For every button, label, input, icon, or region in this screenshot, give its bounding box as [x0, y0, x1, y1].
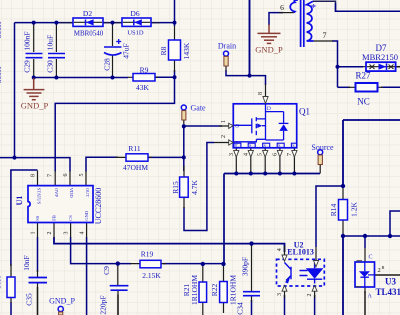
svg-text:3: 3 [64, 232, 70, 235]
svg-text:S: S [264, 143, 266, 148]
wire C35 bottom [37, 287, 39, 315]
pin C28 leads [112, 24, 114, 77]
svg-text:7: 7 [323, 31, 327, 40]
pin source port stub [319, 165, 321, 174]
svg-text:S: S [292, 143, 294, 148]
svg-text:GND_P: GND_P [49, 297, 75, 306]
svg-text:S: S [249, 143, 251, 148]
pin R11 leads [115, 156, 152, 158]
pin C9 leads [117, 265, 119, 315]
svg-text:10nF: 10nF [22, 255, 31, 270]
capacitor C34 [243, 292, 260, 296]
svg-text:7: 7 [48, 174, 54, 177]
svg-text:D6: D6 [130, 9, 139, 18]
svg-text:GND_P: GND_P [21, 101, 49, 111]
svg-text:7: 7 [287, 153, 293, 156]
wire C34 bottom [251, 300, 253, 315]
svg-text:VDD: VDD [69, 188, 74, 199]
svg-text:C35: C35 [25, 293, 34, 306]
svg-text:MBR0540: MBR0540 [74, 29, 104, 37]
pin numbers 3 4 5 6 7 Q1 bottom [229, 153, 293, 156]
pin C34 leads [251, 245, 253, 303]
svg-text:*: * [311, 2, 317, 14]
pin C35 leads [37, 270, 39, 315]
pin C30 leads [55, 24, 57, 77]
svg-text:4: 4 [80, 232, 86, 235]
pin arrows Q1 [229, 97, 297, 158]
svg-text:4: 4 [243, 153, 249, 156]
svg-text:2: 2 [47, 232, 53, 235]
capacitor C9 [110, 286, 129, 291]
svg-text:47uF: 47uF [122, 43, 131, 58]
IC U3 TL431 body [355, 261, 375, 287]
wire secondary bottom [332, 41, 338, 87]
wire source rail drop [223, 174, 225, 265]
svg-text:NC: NC [357, 97, 370, 107]
svg-text:US1D: US1D [127, 29, 144, 36]
pin Q1 left pins [214, 126, 229, 143]
wire D2-D6 link [103, 22, 122, 24]
resistor R15 [180, 177, 189, 197]
svg-text:1.2K: 1.2K [350, 202, 359, 217]
optocoupler U2 EL1013 body [277, 259, 325, 286]
svg-text:OVP: OVP [54, 188, 59, 198]
svg-text:R: R [382, 265, 385, 270]
wire 10K resistor bottom [10, 302, 12, 315]
resistor R21 [199, 282, 207, 302]
wire drain net vertical [249, 0, 251, 76]
pin D2 leads [60, 22, 160, 24]
ground GND_P right [258, 25, 281, 44]
svg-text:C: C [369, 255, 373, 261]
svg-text:800K: 800K [0, 21, 3, 38]
wire R19 right to R21 R22 [163, 263, 224, 265]
svg-text:U1: U1 [15, 196, 24, 206]
svg-text:6: 6 [280, 3, 284, 12]
wire GND pin4 down [86, 237, 88, 315]
wire VDD vertical drop [14, 23, 16, 158]
svg-text:800K: 800K [0, 66, 3, 83]
svg-text:CS: CS [68, 215, 73, 221]
capacitor C35 [29, 278, 48, 283]
pin pad names S Q1 bottom [235, 143, 295, 148]
pin R22 leads [223, 265, 225, 313]
svg-text:MBR2150: MBR2150 [362, 52, 398, 62]
svg-text:R27: R27 [355, 71, 371, 81]
svg-text:1: 1 [31, 232, 37, 235]
svg-text:8: 8 [258, 92, 264, 95]
svg-text:47OHM: 47OHM [123, 163, 148, 172]
pin D7 lead [363, 66, 400, 68]
wire FB net pin2 to U2 pin4 [54, 237, 285, 252]
svg-text:C28: C28 [103, 58, 112, 71]
svg-text:100nF: 100nF [23, 31, 32, 50]
svg-text:Drain: Drain [218, 42, 236, 51]
node source net junctions [341, 184, 345, 188]
svg-text:390pF: 390pF [241, 257, 250, 276]
wire STATUS pin8 loop [11, 170, 38, 266]
wire x343 bottom run [342, 236, 344, 315]
wire R27 right [381, 86, 400, 88]
wire source junction to U2 LED [316, 186, 343, 247]
wire U2 pin2 down [314, 295, 316, 315]
resistor 10K bottom left [7, 277, 15, 298]
pin R19 leads [130, 263, 166, 265]
port GND_P bottom [58, 306, 63, 315]
svg-text:R15: R15 [171, 181, 180, 194]
node Q1 source pin junctions [234, 172, 238, 176]
svg-text:Source: Source [311, 143, 334, 152]
wire cap bottom rail to R9 [34, 77, 128, 79]
wire xfmr pin6 to gnd [269, 13, 283, 25]
svg-text:UCC28600: UCC28600 [94, 188, 103, 224]
node CS net junctions [116, 261, 120, 265]
pin drain port stub [225, 66, 227, 71]
capacitor C30 [48, 54, 65, 58]
svg-text:143K: 143K [182, 42, 191, 59]
pin gate port stub [183, 120, 185, 126]
pin R8 leads [174, 26, 176, 72]
svg-text:10uF: 10uF [45, 35, 54, 50]
svg-text:4: 4 [277, 248, 283, 251]
svg-text:2: 2 [378, 267, 381, 274]
resistor R11 [126, 154, 148, 161]
svg-text:5: 5 [79, 174, 85, 177]
svg-text:R8: R8 [159, 46, 168, 55]
node drain junction [248, 74, 252, 78]
svg-text:1: 1 [221, 120, 227, 123]
wire drain port stub [226, 70, 250, 76]
wire SS pin1 to C35 [37, 237, 39, 272]
svg-text:OUT: OUT [85, 188, 90, 198]
wire VDD top rail [15, 22, 74, 24]
svg-text:GND: GND [84, 210, 89, 221]
resistor R27 [356, 83, 378, 92]
node VDD rail junctions [32, 21, 36, 25]
port Drain [224, 51, 229, 66]
svg-text:10K: 10K [0, 275, 3, 289]
pin C29 leads [33, 24, 35, 77]
pin U1 top pins [38, 171, 87, 186]
svg-text:2: 2 [221, 135, 227, 138]
diode D6 US1D [122, 18, 151, 26]
svg-text:D2: D2 [83, 9, 92, 18]
svg-text:C30: C30 [45, 60, 54, 73]
svg-text:G: G [235, 124, 239, 130]
wire D7 out [396, 66, 400, 68]
ground GND_P left [24, 78, 45, 100]
resistor R22 [220, 282, 228, 303]
wire gate node vertical [183, 126, 185, 157]
resistor R8 [169, 40, 181, 60]
svg-text:5: 5 [258, 153, 264, 156]
svg-text:8: 8 [31, 174, 37, 177]
svg-text:220pF: 220pF [99, 295, 108, 314]
wire R9 to R8 junction [155, 70, 175, 77]
port Gate [181, 105, 186, 120]
wire VDD to U1 pin6 [0, 158, 70, 172]
svg-text:Gate: Gate [191, 103, 207, 112]
svg-text:43K: 43K [136, 83, 150, 92]
capacitor C29 [26, 54, 43, 58]
wire C9 bottom [117, 295, 119, 315]
resistor R19 [140, 260, 161, 268]
pin pads Q1 bottom [234, 143, 297, 147]
pin U2 pins [285, 246, 317, 298]
svg-text:R9: R9 [140, 66, 149, 75]
svg-text:3: 3 [229, 153, 235, 156]
svg-text:3: 3 [277, 293, 283, 296]
mosfet Q1 body [233, 104, 296, 148]
wire U2 pin3 down [284, 295, 286, 315]
wire U3 riser [364, 236, 366, 248]
wire Q1 source pins rail [224, 173, 320, 175]
diode D2 MBR0540 [73, 18, 103, 26]
pin U3 cathode [364, 248, 366, 294]
pin Q1 top [265, 84, 267, 96]
pin xfmr 7 [314, 40, 333, 42]
node cap bottom rail junctions [32, 76, 36, 80]
svg-text:EL1013: EL1013 [287, 248, 314, 257]
svg-text:R19: R19 [141, 250, 154, 259]
pin Q1 bottom pins [236, 148, 294, 174]
svg-text:STATUS: STATUS [36, 188, 41, 205]
wire secondary top out [313, 1, 400, 11]
port Source [318, 150, 323, 165]
wire drain to Q1 pin8 [250, 76, 266, 85]
wire U3 ref out [375, 274, 400, 276]
pin numbers U1 top [31, 174, 85, 178]
svg-text:1R1OHM: 1R1OHM [190, 275, 199, 305]
svg-text:SS: SS [35, 215, 40, 221]
pin U1 bottom pins [38, 223, 87, 238]
resistor R9 [133, 74, 155, 82]
pin 10K resistor top [10, 264, 12, 303]
wire OVP net R8/R9 junction to U1 pin7 [55, 77, 174, 171]
svg-text:Q1: Q1 [299, 107, 310, 117]
svg-text:R22: R22 [210, 284, 219, 297]
svg-text:S: S [278, 143, 280, 148]
pin numbers U1 bottom [31, 232, 86, 235]
pin arrows U2 [282, 255, 319, 291]
svg-text:2.15K: 2.15K [142, 271, 161, 280]
diode D7 MBR2150 [366, 62, 396, 71]
wire D6 to R8 junction [151, 0, 175, 26]
pin xfmr 6 [279, 12, 294, 14]
wire gate to Q1 pin1 [184, 125, 222, 127]
pin R21 leads [202, 265, 204, 315]
svg-text:R14: R14 [329, 204, 338, 217]
wire R11 to gate node [148, 156, 184, 158]
IC U1 UCC28600 body [28, 186, 93, 223]
pin R9 leads [128, 76, 158, 78]
svg-text:D: D [267, 106, 271, 112]
wire OUT pin5 to R11 [86, 157, 118, 171]
node gate junctions [182, 124, 186, 128]
resistor R14 [339, 200, 348, 221]
node FB C34 junction [249, 241, 253, 245]
svg-text:S: S [235, 143, 237, 148]
svg-text:C9: C9 [102, 266, 111, 275]
svg-text:A: A [368, 294, 373, 300]
svg-text:C29: C29 [23, 60, 32, 73]
svg-text:4.7K: 4.7K [190, 180, 199, 195]
wire CS net pin3 [71, 237, 131, 264]
wire R15 bottom loop to Q1 pin2 [184, 143, 214, 231]
wire to diode D7 [338, 66, 364, 68]
pin R27 leads [348, 86, 383, 88]
wire R27 left [338, 86, 351, 88]
pin R15 leads [183, 166, 185, 208]
pin R14 leads [342, 187, 344, 236]
svg-text:FB: FB [52, 215, 57, 221]
svg-text:C34: C34 [236, 302, 245, 315]
wire R14 bottom rail [343, 235, 400, 237]
svg-text:2: 2 [307, 294, 313, 297]
wire source net top corner [343, 120, 400, 186]
svg-text:6: 6 [63, 174, 69, 177]
svg-text:TL431B: TL431B [376, 287, 400, 297]
capacitor C28 polarized [104, 39, 122, 55]
svg-text:U3: U3 [385, 277, 396, 287]
wire U3 anode down [364, 291, 366, 315]
svg-text:GND_P: GND_P [255, 45, 283, 55]
pin names U1 [35, 188, 90, 221]
wire R15 top [183, 157, 185, 171]
node secondary junction [336, 65, 340, 69]
svg-text:1R1OHM: 1R1OHM [229, 275, 238, 305]
wire right corner riser [390, 211, 400, 236]
svg-text:6: 6 [272, 153, 278, 156]
transformer T primary core and windings [290, 0, 313, 47]
svg-text:R11: R11 [128, 144, 140, 153]
node VDD drop junction [13, 156, 17, 160]
